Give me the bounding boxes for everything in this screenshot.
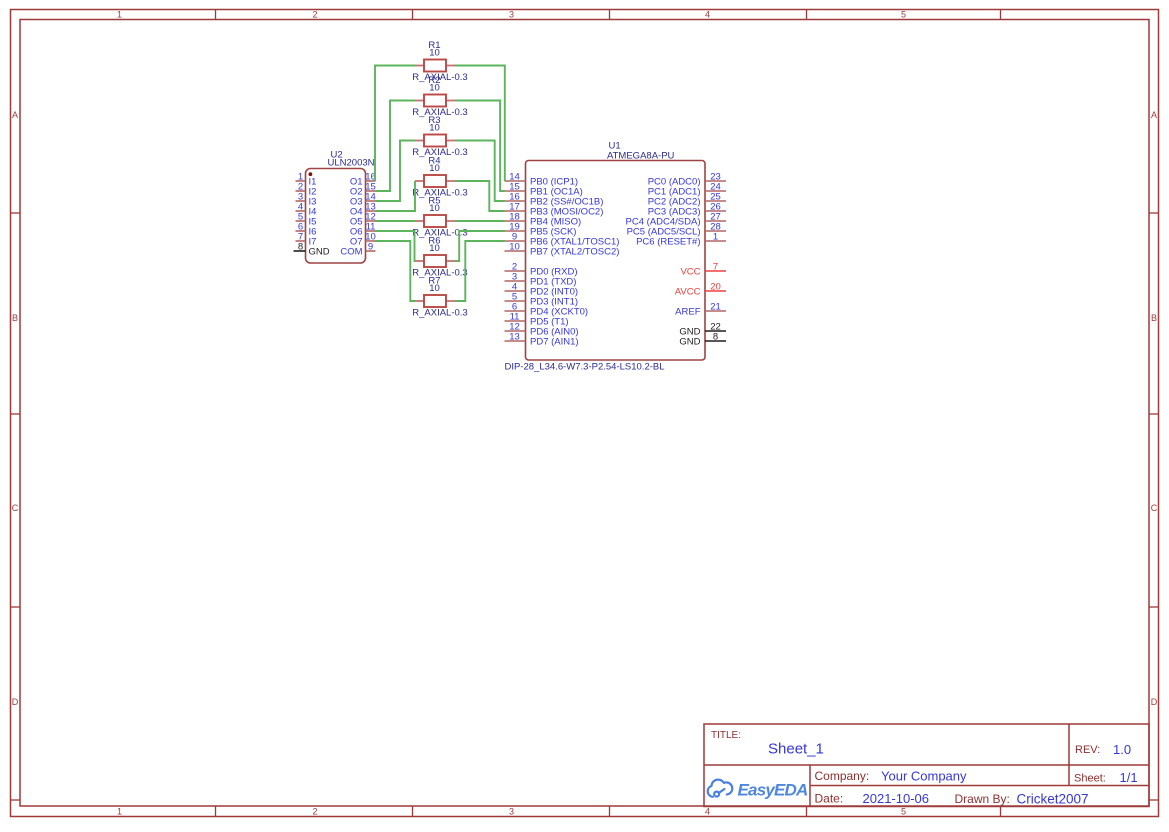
svg-text:10: 10: [509, 241, 520, 252]
svg-text:Your Company: Your Company: [881, 769, 967, 784]
svg-text:D: D: [12, 697, 19, 707]
svg-text:B: B: [12, 313, 18, 323]
U2 pin 9 (COM): [340, 241, 375, 257]
U1 pin 6 (PD4 (XCKT0)): [505, 301, 589, 317]
svg-text:A: A: [1151, 110, 1157, 120]
wire U2 pin12 (O5) to R5 left: [376, 220, 416, 222]
U1 pin 9 (PB6 (XTAL1/TOSC1)): [505, 231, 620, 247]
svg-text:B: B: [1151, 313, 1157, 323]
svg-text:3: 3: [509, 10, 514, 20]
U1 pin 28 (PC5 (ADC5/SCL)): [627, 221, 726, 237]
svg-text:PB7 (XTAL2/TOSC2): PB7 (XTAL2/TOSC2): [530, 246, 619, 257]
U2 pin 8 (GND): [294, 241, 330, 257]
wire R1 right to U1 pin14 (PB0): [455, 66, 505, 182]
wire R5 right to U1 pin18 (PB4): [455, 220, 505, 222]
svg-text:A: A: [12, 110, 18, 120]
svg-text:VCC: VCC: [680, 266, 700, 277]
svg-text:C: C: [12, 503, 19, 513]
svg-text:7: 7: [713, 261, 718, 272]
svg-text:1.0: 1.0: [1113, 742, 1131, 757]
svg-text:1: 1: [117, 10, 122, 20]
svg-text:Sheet:: Sheet:: [1074, 773, 1106, 785]
svg-text:COM: COM: [340, 246, 362, 257]
resistor R6: [415, 255, 455, 267]
wire U2 pin15 (O2) to R2 left: [376, 101, 416, 192]
wire R7 right to U1 pin9 (PB6): [455, 241, 505, 301]
U1 pin 27 (PC4 (ADC4/SDA)): [626, 211, 726, 227]
wire R6 right to U1 pin19 (PB5): [455, 231, 505, 261]
svg-text:21: 21: [710, 301, 721, 312]
svg-text:AREF: AREF: [675, 306, 701, 317]
svg-text:Date:: Date:: [815, 792, 844, 806]
U1 pin 4 (PD2 (INT0)): [505, 281, 579, 297]
resistor R3: [415, 135, 455, 147]
U1 pin 5 (PD3 (INT1)): [505, 291, 579, 307]
svg-text:Sheet_1: Sheet_1: [768, 741, 824, 758]
U1 pin 18 (PB4 (MISO)): [505, 211, 582, 227]
U2 pin 11 (O6): [350, 221, 376, 237]
U2 pin 7 (I7): [296, 231, 317, 247]
U1 pin 23 (PC0 (ADC0)): [648, 171, 726, 187]
U2 pin 1 (I1): [296, 171, 317, 187]
U2 pin 12 (O5): [350, 211, 376, 227]
svg-text:2021-10-06: 2021-10-06: [863, 791, 930, 806]
svg-text:Cricket2007: Cricket2007: [1017, 792, 1089, 807]
U2 pin 13 (O4): [350, 201, 376, 217]
U2 pin 4 (I4): [296, 201, 317, 217]
svg-text:13: 13: [509, 331, 520, 342]
wire U2 pin10 (O7) to R7 left: [376, 241, 416, 301]
U1 pin 1 (PC6 (RESET#)): [636, 231, 726, 247]
svg-text:1/1: 1/1: [1120, 770, 1138, 785]
svg-text:4: 4: [705, 807, 710, 817]
svg-text:GND: GND: [679, 336, 700, 347]
wire R2 right to U1 pin15 (PB1): [455, 101, 505, 192]
svg-text:R_AXIAL-0.3: R_AXIAL-0.3: [412, 308, 467, 319]
U1 pin 3 (PD1 (TXD)): [505, 271, 577, 287]
svg-text:C: C: [1151, 503, 1158, 513]
U1 pin 20 (AVCC): [675, 281, 726, 297]
wire U2 pin14 (O3) to R3 left: [376, 141, 416, 202]
svg-text:10: 10: [429, 203, 440, 214]
U2 pin 3 (I3): [296, 191, 317, 207]
svg-text:20: 20: [710, 281, 721, 292]
U1 pin 17 (PB3 (MOSI/OC2)): [505, 201, 604, 217]
resistor R5: [415, 215, 455, 227]
svg-text:PD7 (AIN1): PD7 (AIN1): [530, 336, 579, 347]
U2 pin 10 (O7): [350, 231, 376, 247]
svg-text:DIP-28_L34.6-W7.3-P2.54-LS10.2: DIP-28_L34.6-W7.3-P2.54-LS10.2-BL: [505, 362, 665, 373]
svg-text:2: 2: [312, 807, 317, 817]
resistor R4: [415, 175, 455, 187]
U2 pin-1 orientation dot: [309, 172, 313, 176]
U1 pin 16 (PB2 (SS#/OC1B)): [505, 191, 604, 207]
wire U2 pin13 (O4) to R4 left: [376, 181, 416, 211]
svg-text:2: 2: [312, 10, 317, 20]
wire U2 pin11 (O6) to R6 left: [376, 231, 416, 261]
U1 pin 22 (GND): [679, 321, 726, 337]
U1 pin 24 (PC1 (ADC1)): [648, 181, 726, 197]
U2 pin 2 (I2): [296, 181, 317, 197]
U1 pin 15 (PB1 (OC1A)): [505, 181, 583, 197]
U1 pin 8 (GND): [679, 331, 726, 347]
svg-text:1: 1: [713, 231, 718, 242]
svg-text:REV:: REV:: [1075, 744, 1100, 756]
svg-text:9: 9: [368, 241, 373, 252]
U1 pin 19 (PB5 (SCK)): [505, 221, 577, 237]
resistor R7: [415, 295, 455, 307]
U2 pin 6 (I6): [296, 221, 317, 237]
svg-text:AVCC: AVCC: [675, 286, 701, 297]
svg-text:10: 10: [429, 123, 440, 134]
wire R3 right to U1 pin16 (PB2): [455, 141, 505, 202]
U1 pin 12 (PD6 (AIN0)): [505, 321, 579, 337]
U2 pin 14 (O3): [350, 191, 376, 207]
svg-text:5: 5: [901, 10, 906, 20]
svg-text:3: 3: [509, 807, 514, 817]
svg-text:10: 10: [429, 163, 440, 174]
svg-text:8: 8: [298, 241, 303, 252]
svg-text:PC6 (RESET#): PC6 (RESET#): [636, 236, 700, 247]
U1 pin 10 (PB7 (XTAL2/TOSC2)): [505, 241, 620, 257]
svg-text:8: 8: [713, 331, 718, 342]
U1 pin 21 (AREF): [675, 301, 726, 317]
svg-text:10: 10: [429, 243, 440, 254]
U1 pin 7 (VCC): [680, 261, 726, 277]
svg-text:ULN2003N: ULN2003N: [328, 158, 375, 169]
svg-text:5: 5: [901, 807, 906, 817]
IC U2 ULN2003N body: [306, 169, 366, 264]
svg-text:TITLE:: TITLE:: [711, 730, 741, 741]
svg-text:EasyEDA: EasyEDA: [738, 781, 809, 800]
wire R4 right to U1 pin17 (PB3): [455, 181, 505, 211]
wire U2 pin16 (O1) to R1 left: [375, 66, 415, 182]
svg-text:10: 10: [429, 48, 440, 59]
svg-text:ATMEGA8A-PU: ATMEGA8A-PU: [607, 151, 675, 162]
U2 pin 16 (O1): [350, 171, 376, 187]
svg-text:10: 10: [429, 83, 440, 94]
svg-text:D: D: [1151, 697, 1158, 707]
svg-text:10: 10: [429, 283, 440, 294]
U1 pin 14 (PB0 (ICP1)): [505, 171, 579, 187]
title block frame: [704, 724, 1149, 807]
resistor R1: [415, 60, 455, 72]
U1 pin 11 (PD5 (T1)): [505, 311, 569, 327]
IC U1 ATMEGA8A-PU body: [526, 161, 706, 361]
U1 pin 13 (PD7 (AIN1)): [505, 331, 579, 347]
svg-text:GND: GND: [309, 246, 330, 257]
svg-text:Drawn By:: Drawn By:: [955, 792, 1010, 806]
svg-text:4: 4: [705, 10, 710, 20]
resistor R2: [415, 95, 455, 107]
U2 pin 5 (I5): [296, 211, 317, 227]
EasyEDA logo cloud icon: [708, 780, 733, 797]
U1 pin 2 (PD0 (RXD)): [505, 261, 578, 277]
U2 pin 15 (O2): [350, 181, 376, 197]
U1 pin 25 (PC2 (ADC2)): [648, 191, 726, 207]
svg-text:Company:: Company:: [815, 769, 870, 783]
U1 pin 26 (PC3 (ADC3)): [648, 201, 726, 217]
svg-text:1: 1: [117, 807, 122, 817]
